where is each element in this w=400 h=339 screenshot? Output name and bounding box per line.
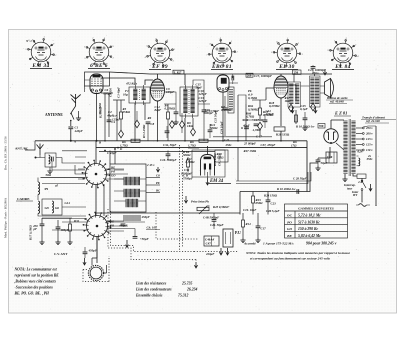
- svg-text:1: 1: [231, 41, 232, 43]
- wire osc horizontal: [101, 92, 113, 94]
- PU terminals box: [223, 229, 233, 247]
- EM34 pin leads: [205, 170, 210, 179]
- wire osc top link: [113, 99, 125, 101]
- main bus AVC upper: [35, 140, 307, 142]
- svg-text:125 v: 125 v: [366, 143, 373, 147]
- mid rail: [240, 163, 318, 192]
- wire antenna lead 2: [70, 121, 72, 127]
- svg-text:GO: GO: [111, 173, 116, 177]
- svg-text:R27 1MΩ: R27 1MΩ: [244, 149, 257, 153]
- svg-text:Liste des résistances: Liste des résistances: [135, 282, 167, 286]
- tube socket EL30 pinout: [271, 38, 303, 67]
- svg-text:350v: 350v: [366, 157, 374, 161]
- svg-text:20pF: 20pF: [195, 86, 204, 90]
- IF transformer T1: [129, 85, 150, 105]
- svg-text:OC: OC: [287, 214, 293, 218]
- svg-text:26.234: 26.234: [186, 288, 197, 292]
- svg-text:Ch. 104: Ch. 104: [147, 226, 158, 230]
- svg-text:5,82 à 6,42 Mc: 5,82 à 6,42 Mc: [298, 234, 321, 238]
- scan speckle noise: [10, 31, 389, 311]
- wire em34 feed: [188, 147, 199, 149]
- svg-text:145 v: 145 v: [366, 137, 373, 141]
- svg-text:Liste des condensateurs: Liste des condensateurs: [135, 288, 172, 292]
- svg-text:ANTENNE: ANTENNE: [45, 113, 63, 117]
- svg-text:R17 0,1MΩ: R17 0,1MΩ: [29, 224, 33, 240]
- svg-text:R14: R14: [246, 222, 252, 226]
- svg-text:G0: G0: [55, 206, 59, 210]
- svg-text:R5 2.2MΩ: R5 2.2MΩ: [142, 124, 146, 138]
- svg-text:C17: C17: [261, 227, 267, 231]
- svg-text:R20 135Ω: R20 135Ω: [276, 133, 290, 137]
- svg-text:650Ω: 650Ω: [256, 201, 264, 205]
- wire below S2 b: [107, 229, 135, 237]
- svg-text:110 v: 110 v: [366, 148, 373, 152]
- diamond EF89 cathode: [170, 121, 175, 129]
- wire transformer bottom left: [344, 174, 346, 177]
- wire T2 g link: [193, 80, 210, 104]
- capacitor C13 mid: [202, 110, 207, 112]
- svg-text:200 v: 200 v: [365, 132, 373, 136]
- wire EBC81 down: [222, 92, 224, 141]
- keyboard coil block box: [110, 164, 146, 212]
- wire det down: [259, 130, 261, 136]
- wire T2 top: [184, 74, 186, 85]
- wire ant box right: [62, 158, 85, 164]
- wire screen resistor: [295, 110, 297, 124]
- svg-text:Mod. Philips - Paris - BX290: Mod. Philips - Paris - BX290A: [4, 197, 8, 238]
- svg-text:R31: R31: [74, 219, 80, 223]
- chassis arrow near mains: [369, 184, 372, 191]
- tube EF89 envelope: [151, 79, 165, 101]
- chassis arrow left of CV: [83, 258, 86, 265]
- svg-text:C26 5,2μF: C26 5,2μF: [266, 209, 281, 213]
- antenna input box: [45, 153, 56, 167]
- tube socket EF89 pinout: [145, 38, 175, 66]
- svg-text:1: 1: [55, 55, 56, 57]
- tube EL84 envelope: [274, 76, 288, 98]
- label box L827: [173, 70, 184, 74]
- svg-text:470pF: 470pF: [265, 112, 275, 116]
- capacitor C4 osc: [107, 120, 112, 122]
- output transformer secondary comb: [310, 76, 321, 107]
- coil P9: [38, 182, 40, 194]
- chassis arrow pu2: [226, 248, 229, 255]
- table gammes couvertes: [285, 204, 348, 238]
- wire EZ81 heater: [336, 143, 344, 150]
- resistor R15 vertical: [259, 108, 262, 115]
- svg-text:C23: C23: [271, 202, 277, 206]
- svg-text:C8: C8: [156, 174, 160, 178]
- wire coils to wafer S2: [38, 207, 86, 216]
- ground below ant box: [49, 167, 51, 169]
- electrolytic cap C41: [56, 227, 61, 229]
- wire mains leads: [362, 195, 376, 206]
- wire S2-S3 link: [96, 237, 98, 264]
- svg-text:R24 150Ω: R24 150Ω: [264, 194, 278, 198]
- svg-text:GAMMES COUVERTES: GAMMES COUVERTES: [298, 206, 334, 210]
- resistor on bus 1: [131, 139, 140, 142]
- underline EM34 label: [209, 183, 231, 185]
- svg-text:984 pour 380.245 v: 984 pour 380.245 v: [306, 242, 337, 246]
- svg-text:260: 260: [247, 74, 252, 78]
- svg-text:0,1μF: 0,1μF: [300, 107, 309, 111]
- wire S1-S2 link: [95, 185, 97, 216]
- capacitor 50uF below S2: [133, 237, 138, 239]
- wire EL84 anode: [280, 74, 282, 76]
- tuning capacitor CV circle: [88, 265, 103, 280]
- junction C label: [104, 150, 106, 152]
- box C50 filter caps: [326, 152, 337, 163]
- label box 260: [246, 73, 253, 77]
- svg-text:,Bobines vues côté contacts: ,Bobines vues côté contacts: [14, 280, 57, 284]
- capacitor C22 drop: [256, 226, 261, 228]
- EM34 cathode bars: [204, 164, 206, 170]
- antenna symbol: [71, 94, 81, 106]
- wire below R20: [280, 131, 282, 141]
- svg-text:C16. 5000pF: C16. 5000pF: [160, 158, 177, 162]
- svg-text:P.U: P.U: [235, 231, 241, 235]
- svg-text:C47: C47: [206, 242, 212, 246]
- shield dotted inner segment: [156, 212, 199, 239]
- svg-text:NOTA: Toutes les tensions indi: NOTA: Toutes les tensions indiquées sont…: [245, 251, 350, 255]
- wire det cluster: [242, 119, 262, 121]
- wire S1 right links: [106, 169, 128, 179]
- svg-text:1KΩ: 1KΩ: [187, 124, 194, 128]
- svg-text:450pF: 450pF: [141, 215, 151, 219]
- pot slider arrow: [197, 207, 209, 210]
- switch wafer S2: [83, 212, 112, 241]
- EM34 anode bar: [204, 157, 212, 160]
- wire EL84 screen: [288, 85, 296, 100]
- svg-text:10μ: 10μ: [123, 93, 128, 97]
- filter cap C30: [316, 160, 321, 162]
- svg-text:440pF: 440pF: [74, 129, 84, 133]
- wire P9 top: [37, 178, 39, 201]
- svg-text:250 v: 250 v: [311, 71, 319, 75]
- svg-text:25KΩ: 25KΩ: [122, 110, 131, 114]
- fuse box: [357, 174, 366, 178]
- tube 6BE6 grid loop box: [85, 72, 110, 86]
- underline bobine: [326, 100, 353, 103]
- wire bottomleft rail: [42, 217, 72, 219]
- wire transformer bottom right: [353, 174, 357, 176]
- power transformer windings: [343, 119, 355, 176]
- svg-text:82pF: 82pF: [155, 108, 163, 112]
- wire tap join top: [363, 126, 376, 127]
- lower long bus: [96, 212, 240, 214]
- wire bus left end: [25, 141, 35, 150]
- capacitor C20 pu: [212, 220, 217, 222]
- wire osc vertical 3: [116, 100, 118, 141]
- svg-text:1KΩ: 1KΩ: [285, 99, 292, 103]
- wire det vertical 1: [237, 95, 239, 141]
- svg-text:PO: PO: [287, 220, 292, 224]
- capacitor C11: [174, 112, 179, 114]
- switch wafer S1: [82, 160, 111, 189]
- wire nest S2 left: [42, 219, 87, 231]
- speaker cone: [325, 79, 331, 98]
- svg-text:25.735: 25.735: [181, 282, 192, 286]
- svg-text:HT: HT: [352, 193, 357, 197]
- wire 6BE6 cathode down: [96, 94, 98, 141]
- chassis arrow pu1: [219, 248, 222, 255]
- svg-text:150 à 290 Kc: 150 à 290 Kc: [298, 227, 318, 231]
- windings under lower bus: [123, 215, 125, 221]
- keyboard block windings: [124, 177, 140, 207]
- svg-text:C9 .5MΩ: C9 .5MΩ: [218, 154, 222, 166]
- svg-text:4,7KΩ: 4,7KΩ: [245, 115, 255, 119]
- svg-text:6,3v: 6,3v: [358, 150, 364, 154]
- svg-text:L.827: L.827: [174, 70, 182, 74]
- svg-text:R21 1MΩ: R21 1MΩ: [213, 153, 217, 166]
- power transformer voltage taps: [356, 127, 363, 129]
- wire EM34 top: [207, 146, 209, 155]
- underline EZ81: [334, 115, 351, 117]
- wire T2 down right: [192, 118, 194, 128]
- small cap fill 2: [208, 130, 213, 132]
- chassis arrow OT A: [291, 107, 294, 113]
- diamond det: [258, 122, 263, 130]
- svg-text:C13 50pF: C13 50pF: [214, 109, 218, 123]
- wire EF89 g2 link: [164, 92, 176, 104]
- resistor R4 vertical: [167, 112, 170, 119]
- tube EBC81 envelope: [217, 75, 229, 92]
- chassis arrow below EM34: [206, 178, 209, 185]
- svg-text:E Z 81: E Z 81: [334, 111, 347, 116]
- svg-text:Prise Inter.Ph: Prise Inter.Ph: [191, 200, 209, 204]
- antenna switch contact: [71, 113, 74, 120]
- svg-text:4,7KΩ: 4,7KΩ: [252, 128, 262, 132]
- wire below S2 a: [107, 221, 145, 223]
- svg-text:C37, 250pF: C37, 250pF: [261, 143, 277, 147]
- svg-text:5000pF: 5000pF: [204, 111, 215, 115]
- wire S1-S2 second vertical: [103, 184, 105, 216]
- svg-text:N°.1: N°.1: [25, 39, 32, 43]
- capacitor C8 below T1: [146, 122, 151, 124]
- tube socket 6BE6 pinout: [84, 38, 114, 65]
- wire CV stator link: [104, 265, 107, 273]
- wire mid rail drop: [239, 192, 241, 215]
- svg-text:ANT./BC: ANT./BC: [15, 147, 29, 151]
- chassis arrow mid: [184, 196, 187, 203]
- wire below C1: [70, 129, 72, 141]
- stub line BC: [146, 192, 160, 194]
- diamond below T2: [191, 128, 196, 136]
- underline transfo: [361, 120, 396, 123]
- wire C17 above bus: [213, 136, 272, 138]
- svg-text:R 10 200Ω-1w: R 10 200Ω-1w: [277, 187, 296, 191]
- box around EM34: [192, 150, 225, 177]
- mains plug symbol: [359, 204, 367, 207]
- capacitor C14a: [223, 108, 228, 110]
- svg-text:et correspondent au fonctionne: et correspondent au fonctionnement sur s…: [250, 257, 331, 261]
- capacitor above CV: [83, 252, 88, 254]
- wire EL84 grid: [266, 88, 274, 100]
- svg-text:GO: GO: [287, 227, 293, 231]
- cap above rail: [311, 67, 316, 69]
- wire tap bus right: [375, 126, 377, 206]
- tube socket EM34 pinout: [26, 37, 57, 65]
- wire nest S1 left: [42, 151, 87, 184]
- wire det top link: [252, 99, 266, 101]
- underline CADRE: [16, 200, 33, 202]
- svg-text:Doc. Ch. BX 290A - 55/56: Doc. Ch. BX 290A - 55/56: [4, 136, 8, 170]
- wire 6BE6 grid left: [85, 80, 91, 92]
- resistor on bus 2: [199, 139, 208, 142]
- wire OT to rail: [294, 74, 315, 82]
- svg-text:R6: R6: [148, 116, 152, 120]
- capacitor C28 on rail: [297, 189, 299, 194]
- svg-text:C34, 50pF: C34, 50pF: [163, 143, 177, 147]
- svg-text:1: 1: [334, 40, 335, 42]
- aux terminal dot: [35, 157, 37, 159]
- main bus lower: [96, 147, 307, 149]
- small ground arrow near antenna: [78, 111, 80, 116]
- label box 250v: [293, 70, 302, 74]
- resistor R23 drop: [252, 196, 255, 203]
- svg-text:C8: C8: [151, 122, 155, 126]
- resistor R20 cathode box: [274, 127, 285, 131]
- narrow coil box detector: [228, 87, 234, 113]
- wire EL84 cathode: [280, 98, 282, 126]
- svg-text:A: A: [73, 140, 76, 144]
- box 700 left of EZ81: [318, 124, 325, 129]
- junction dot A: [70, 140, 72, 142]
- wire CV top link: [92, 237, 97, 266]
- ground C41: [55, 240, 60, 245]
- svg-text:1 A pour 175-522 M/s: 1 A pour 175-522 M/s: [263, 242, 294, 246]
- interrupteur switch: [361, 178, 363, 195]
- diamond EF89 second: [180, 121, 185, 129]
- chassis arrow OT B: [314, 107, 317, 113]
- wire det col drop: [237, 148, 239, 181]
- vertical dotted shield mid: [180, 145, 183, 251]
- svg-text:517 à 1630 Kc: 517 à 1630 Kc: [298, 220, 320, 224]
- wire EF89 anode top: [157, 74, 159, 79]
- wire T1 sec top: [145, 80, 153, 85]
- wire EZ81 cathode down: [318, 147, 330, 158]
- svg-text:NOTA: Le commutateur est: NOTA: Le commutateur est: [14, 268, 58, 272]
- stub line P8: [146, 184, 160, 186]
- junction D label: [117, 147, 119, 149]
- svg-text:C14 10pF: C14 10pF: [220, 120, 224, 134]
- ground transformer: [342, 177, 347, 182]
- svg-text:C.V. ANT: C.V. ANT: [54, 252, 68, 256]
- svg-text:250v: 250v: [225, 143, 233, 147]
- svg-text:C22: C22: [224, 138, 230, 142]
- svg-text:7500pF: 7500pF: [183, 177, 194, 181]
- svg-text:P8: P8: [156, 181, 160, 185]
- svg-text:CADRE: CADRE: [17, 197, 30, 201]
- shield dotted box around CV: [83, 256, 109, 282]
- wire osc vertical 2: [108, 93, 110, 137]
- svg-text:C19. 10pF: C19. 10pF: [243, 208, 257, 212]
- svg-text:1: 1: [287, 38, 288, 40]
- svg-text:450pF: 450pF: [88, 249, 98, 253]
- svg-text:R2 2MΩ: R2 2MΩ: [99, 106, 103, 118]
- heater winding right: [359, 158, 360, 166]
- svg-text:+50μF: +50μF: [140, 237, 150, 241]
- shield dotted end stub: [194, 252, 238, 263]
- output transformer primary comb: [288, 82, 301, 107]
- svg-text:P9: P9: [45, 187, 49, 191]
- coil G9: [38, 201, 40, 213]
- tube 6BE6 envelope: [90, 74, 103, 94]
- svg-text:BE: BE: [286, 234, 292, 238]
- det cluster caps: [244, 127, 249, 129]
- svg-text:C26. 50μF: C26. 50μF: [210, 223, 225, 227]
- svg-text:1,75Ω: 1,75Ω: [188, 144, 196, 148]
- svg-text:700: 700: [319, 124, 324, 128]
- small cap fill 3: [263, 120, 268, 122]
- svg-text:C17, 10000pF: C17, 10000pF: [254, 74, 273, 78]
- svg-text:0,1MΩ: 0,1MΩ: [248, 96, 258, 100]
- svg-text:50Ω: 50Ω: [46, 173, 52, 177]
- stub line C8: [146, 177, 160, 179]
- wire bus right join: [306, 141, 308, 192]
- tube EM34 envelope: [201, 155, 215, 176]
- IF transformer T2: [180, 85, 198, 118]
- chassis arrow shield end: [194, 262, 197, 268]
- tube socket EL84 pinout: [328, 38, 360, 66]
- diamond EL84 grid: [289, 104, 294, 112]
- capacitor C1 440pF: [68, 127, 73, 129]
- resistor R3 vertical: [120, 112, 123, 119]
- chassis arrow below S2: [125, 240, 128, 248]
- svg-text:-Succession des positions: -Succession des positions: [15, 286, 54, 290]
- wire wafer S1 left links: [75, 165, 86, 179]
- capacitor C25: [303, 118, 308, 120]
- wire S2 right links: [107, 221, 128, 231]
- wire EZ81 plates top: [331, 120, 344, 129]
- svg-text:BE. PO. GO. BE. , PH: BE. PO. GO. BE. , PH: [14, 292, 50, 296]
- horizontal line under S1: [41, 177, 86, 179]
- wire OT link: [301, 86, 325, 93]
- chassis arrow rail: [323, 70, 326, 76]
- svg-text:G14: G14: [65, 201, 71, 205]
- svg-text:1: 1: [174, 49, 175, 51]
- svg-text:C3 40pF: C3 40pF: [117, 86, 121, 98]
- diamond test point osc: [119, 130, 124, 138]
- HT top rail: [110, 72, 333, 74]
- svg-text:17Ω: 17Ω: [291, 144, 297, 148]
- svg-text:680pF: 680pF: [104, 91, 113, 95]
- wire T1 right down: [144, 103, 146, 120]
- diamond EL84 screen: [311, 103, 316, 111]
- svg-text:5,72 à 18,1 Mc: 5,72 à 18,1 Mc: [298, 214, 321, 218]
- resistor R30 drop: [69, 224, 72, 231]
- keyboard block inner leads: [114, 170, 146, 201]
- resistor R8A: [187, 160, 190, 167]
- svg-text:C 43pF: C 43pF: [107, 151, 117, 155]
- wire EF89 cathode down: [157, 101, 159, 141]
- shield dotted staircase outer: [108, 209, 196, 260]
- box R28 tone: [215, 150, 228, 162]
- svg-text:220μF: 220μF: [205, 252, 215, 256]
- tube socket EBC81 pinout: [206, 38, 238, 67]
- svg-text:50μF: 50μF: [321, 161, 329, 165]
- svg-text:G9: G9: [45, 206, 50, 210]
- wire det vertical 2: [245, 104, 247, 141]
- wire T1 top to 6BE6 anode: [101, 78, 135, 85]
- svg-text:25 000pF: 25 000pF: [243, 142, 257, 146]
- capacitor C23 drop: [266, 200, 271, 202]
- wire det link: [229, 83, 246, 104]
- svg-text:C4B 5000pF: C4B 5000pF: [203, 216, 220, 220]
- svg-text:75.312: 75.312: [178, 294, 188, 298]
- electrolytic cap C40: [40, 224, 45, 226]
- svg-text:125pF: 125pF: [166, 90, 175, 94]
